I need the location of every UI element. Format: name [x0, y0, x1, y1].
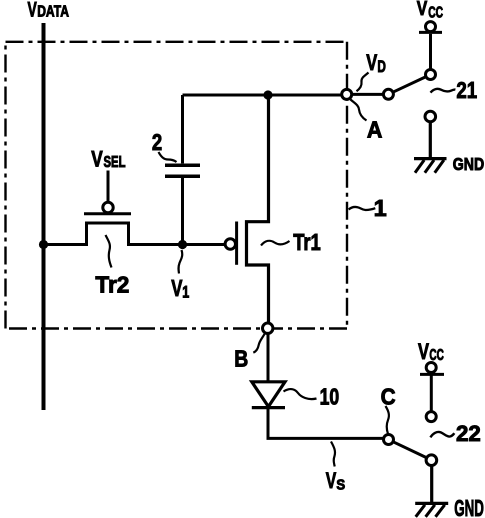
label C leader [386, 406, 389, 434]
wire lower contact to ground (top right) [429, 122, 432, 157]
switch 21 pivot circle [383, 89, 393, 99]
switch 21 arm [393, 77, 426, 93]
switch 22 lower contact circle [426, 455, 437, 466]
transistor Tr1 channel drain-source path [247, 95, 269, 323]
wire top rail (cap to node A) [183, 94, 342, 97]
switch 21 upper contact circle [426, 70, 436, 80]
VCC terminal circle (top) [426, 22, 436, 32]
ground symbol (top right) [414, 157, 447, 160]
svg-text:V: V [326, 468, 337, 493]
label 21 leader tilde [431, 89, 456, 93]
svg-text:CC: CC [428, 4, 443, 21]
label 22 leader tilde [430, 432, 454, 437]
svg-text:D: D [377, 58, 386, 76]
switch 22 upper contact circle [426, 412, 436, 422]
wire VCC stub to switch 21 [429, 34, 432, 70]
svg-text:V: V [91, 146, 103, 171]
label 2 leader [159, 152, 177, 162]
label Tr1 leader tilde [261, 241, 290, 246]
svg-text:22: 22 [456, 421, 481, 446]
svg-text:A: A [367, 116, 383, 142]
label 10 leader [284, 389, 317, 399]
label B leader [253, 334, 264, 353]
node B circle [263, 323, 273, 333]
wire node A to switch 21 pivot [352, 93, 384, 96]
capacitor C2 bottom lead [181, 178, 184, 245]
svg-text:V: V [171, 275, 183, 301]
svg-text:CC: CC [429, 347, 443, 364]
svg-text:V: V [28, 0, 37, 22]
junction on VDATA line [39, 240, 48, 249]
svg-text:GND: GND [453, 154, 484, 174]
svg-text:B: B [234, 346, 248, 372]
svg-text:C: C [381, 384, 396, 410]
svg-text:V: V [366, 50, 377, 75]
VCC terminal tick (top) [419, 31, 442, 34]
label Tr2 leader [106, 235, 112, 268]
svg-text:21: 21 [456, 77, 477, 103]
transistor Tr1 gate bar [235, 222, 238, 265]
capacitor C2 top plate [165, 163, 200, 167]
svg-text:1: 1 [374, 195, 387, 221]
wire VSEL to Tr2 gate [107, 171, 110, 203]
junction node V1 [178, 240, 187, 249]
node A circle [342, 89, 352, 99]
svg-text:Tr2: Tr2 [95, 271, 129, 297]
label VD leader [357, 73, 369, 92]
switch 21 lower contact circle (to GND) [425, 111, 436, 122]
wire node B to diode 10 [267, 333, 270, 381]
wire lower contact to ground (bottom right) [430, 466, 433, 503]
transistor Tr2 gate circle [103, 202, 113, 212]
svg-text:SEL: SEL [104, 154, 126, 171]
transistor Tr1 gate circle [225, 239, 235, 249]
label A leader [351, 100, 367, 121]
node C circle [384, 435, 394, 445]
svg-text:2: 2 [152, 129, 162, 155]
wire VDATA data line [42, 23, 46, 410]
junction Tr1 drain on top rail [263, 90, 272, 99]
transistor Tr2 channel and wire VDATA to Tr1 gate [44, 223, 226, 245]
svg-text:DATA: DATA [37, 4, 69, 21]
capacitor C2 bottom plate [165, 174, 200, 178]
label 1 leader [349, 207, 376, 210]
svg-text:GND: GND [454, 495, 484, 518]
wire diode to node C [268, 408, 384, 438]
capacitor C2 top lead [181, 95, 184, 163]
label V1 leader [179, 250, 183, 274]
transistor Tr2 gate bar [84, 212, 131, 215]
label VS leader [331, 442, 335, 467]
VCC terminal tick (bottom) [420, 373, 444, 376]
diode 10 (OLED) triangle [252, 382, 285, 407]
VCC terminal circle (bottom) [426, 363, 436, 373]
diode 10 cathode bar [252, 406, 285, 409]
svg-text:V: V [418, 339, 429, 364]
switch 22 arm [393, 442, 427, 458]
svg-text:10: 10 [320, 384, 340, 410]
pixel circuit boundary 1 (dash-dot box) [6, 42, 348, 329]
svg-text:Tr1: Tr1 [293, 229, 321, 255]
svg-text:V: V [417, 0, 428, 20]
wire VCC stub to switch 22 [430, 375, 433, 412]
svg-text:S: S [336, 476, 345, 493]
ground symbol (bottom right) [415, 502, 448, 505]
svg-text:1: 1 [182, 283, 189, 302]
